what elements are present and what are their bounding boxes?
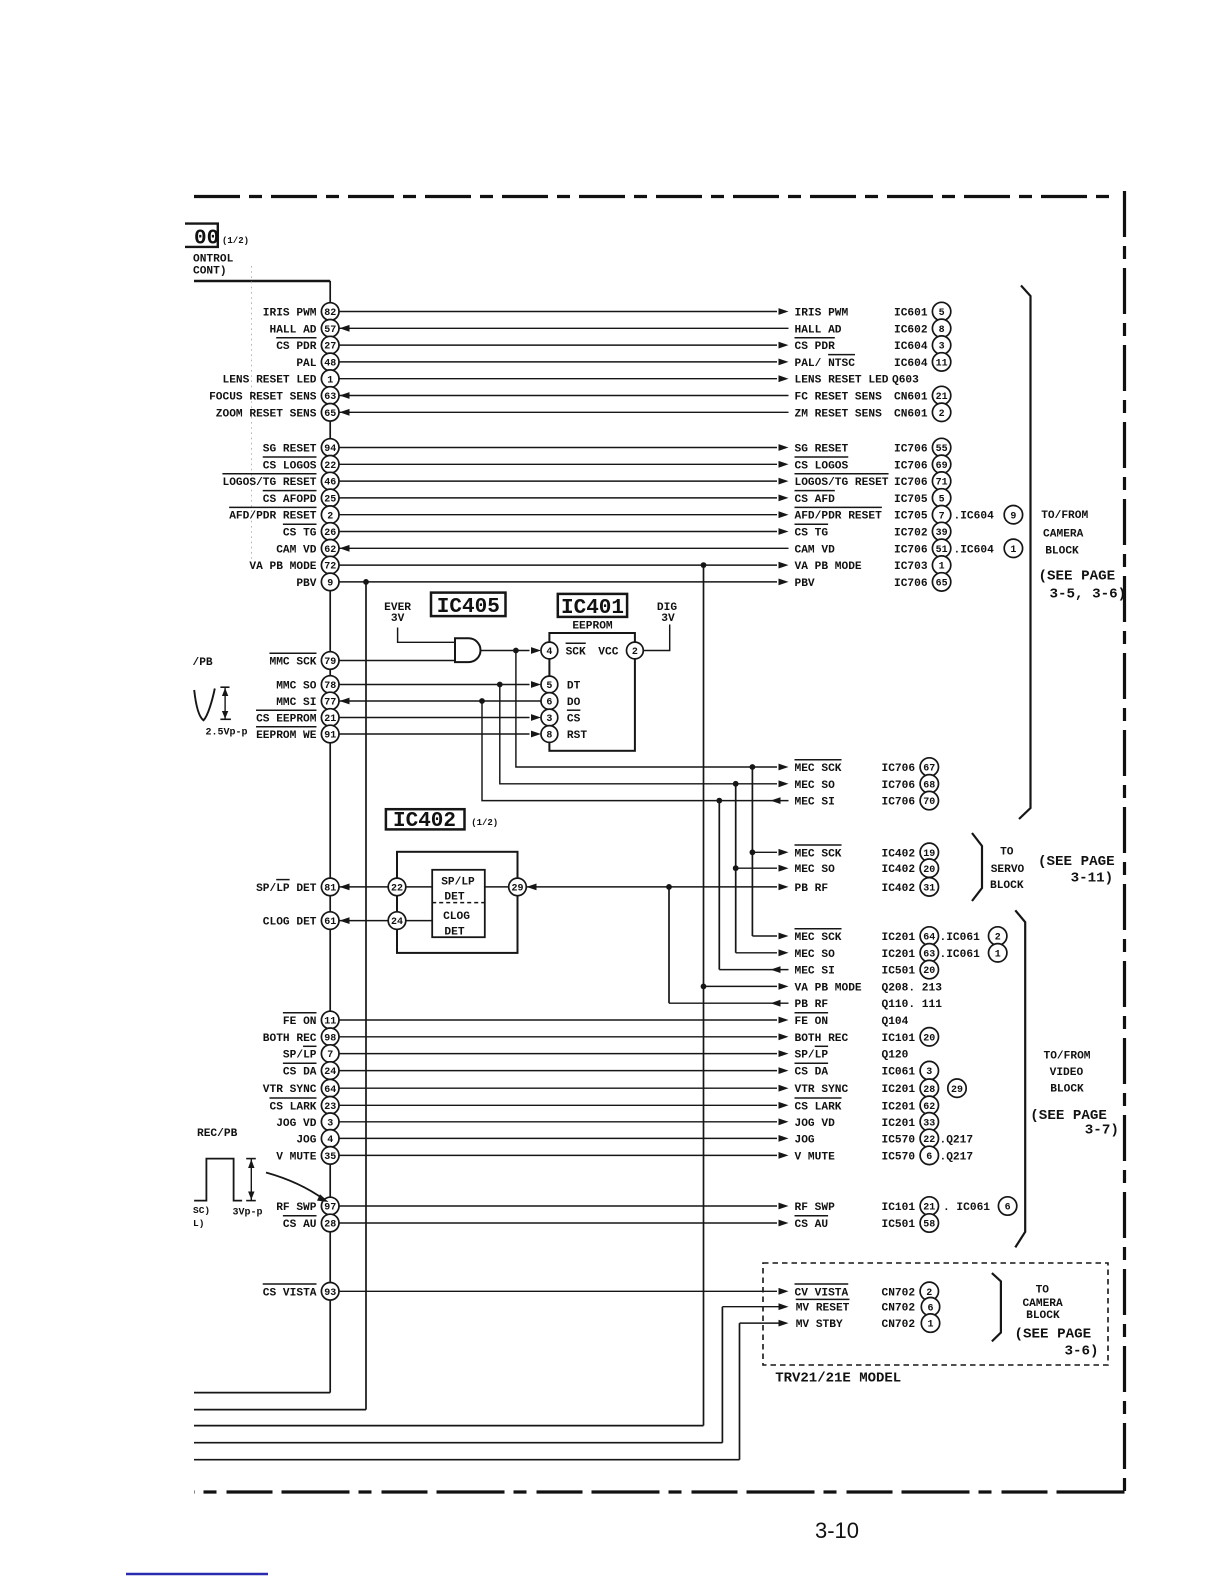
svg-text:SERVO: SERVO bbox=[991, 864, 1025, 876]
svg-text:93: 93 bbox=[324, 1288, 336, 1299]
svg-text:CONT): CONT) bbox=[193, 266, 227, 278]
svg-text:DET: DET bbox=[444, 926, 464, 938]
svg-text:CAM VD: CAM VD bbox=[276, 544, 317, 556]
svg-text:3-10: 3-10 bbox=[815, 1518, 859, 1543]
svg-text:CS LOGOS: CS LOGOS bbox=[795, 460, 849, 472]
svg-text:CN702: CN702 bbox=[882, 1303, 916, 1315]
svg-text:3-7): 3-7) bbox=[1085, 1123, 1119, 1139]
svg-text:MEC SO: MEC SO bbox=[795, 949, 836, 961]
svg-text:MEC SI: MEC SI bbox=[795, 966, 835, 978]
svg-text:JOG VD: JOG VD bbox=[276, 1118, 317, 1130]
svg-text:IC705: IC705 bbox=[894, 494, 928, 506]
svg-text:JOG VD: JOG VD bbox=[795, 1118, 836, 1130]
svg-text:1: 1 bbox=[927, 1320, 933, 1331]
svg-text:CLOG: CLOG bbox=[443, 911, 470, 923]
svg-text:DET: DET bbox=[444, 892, 464, 904]
svg-text:CS DA: CS DA bbox=[795, 1067, 829, 1079]
svg-text:ZOOM RESET SENS: ZOOM RESET SENS bbox=[216, 408, 317, 420]
svg-text:CAMERA: CAMERA bbox=[1043, 528, 1084, 540]
svg-text:2: 2 bbox=[327, 511, 333, 522]
svg-text:DT: DT bbox=[567, 681, 581, 693]
svg-text:69: 69 bbox=[936, 461, 948, 472]
svg-text:HALL AD: HALL AD bbox=[795, 324, 842, 336]
svg-text:68: 68 bbox=[923, 780, 935, 791]
svg-text:ZM RESET SENS: ZM RESET SENS bbox=[795, 408, 883, 420]
svg-text:3: 3 bbox=[939, 342, 945, 353]
svg-text:29: 29 bbox=[951, 1085, 963, 1096]
svg-text:IC601: IC601 bbox=[894, 308, 928, 320]
svg-text:35: 35 bbox=[324, 1152, 336, 1163]
svg-text:PBV: PBV bbox=[296, 578, 316, 590]
svg-text:65: 65 bbox=[936, 579, 948, 590]
svg-text:IC402: IC402 bbox=[882, 864, 916, 876]
svg-text:22: 22 bbox=[324, 461, 336, 472]
svg-text:SP/LP: SP/LP bbox=[283, 1050, 317, 1062]
svg-text:61: 61 bbox=[324, 917, 336, 928]
svg-text:MMC SO: MMC SO bbox=[276, 681, 317, 693]
svg-text:MEC SI: MEC SI bbox=[795, 797, 835, 809]
svg-text:/PB: /PB bbox=[193, 657, 213, 669]
svg-text:58: 58 bbox=[923, 1220, 935, 1231]
svg-text:CS VISTA: CS VISTA bbox=[263, 1287, 317, 1299]
svg-text:81: 81 bbox=[324, 884, 336, 895]
svg-text:3: 3 bbox=[926, 1067, 932, 1078]
svg-text:L): L) bbox=[193, 1218, 204, 1229]
svg-text:Q110. 111: Q110. 111 bbox=[882, 999, 943, 1011]
svg-text:98: 98 bbox=[324, 1033, 336, 1044]
svg-text:51: 51 bbox=[936, 545, 948, 556]
svg-text:CS EEPROM: CS EEPROM bbox=[256, 714, 317, 726]
svg-text:MMC SI: MMC SI bbox=[276, 697, 316, 709]
svg-text:TRV21/21E MODEL: TRV21/21E MODEL bbox=[775, 1371, 901, 1387]
svg-text:MV RESET: MV RESET bbox=[796, 1303, 850, 1315]
svg-text:.IC061: .IC061 bbox=[940, 932, 981, 944]
svg-text:FE ON: FE ON bbox=[795, 1016, 829, 1028]
svg-text:IC201: IC201 bbox=[882, 1101, 916, 1113]
svg-text:2: 2 bbox=[939, 409, 945, 420]
svg-text:IC604: IC604 bbox=[894, 358, 928, 370]
svg-text:Q603: Q603 bbox=[892, 375, 919, 387]
svg-text:1: 1 bbox=[327, 375, 333, 386]
svg-text:SCK: SCK bbox=[566, 647, 586, 659]
svg-text:CS PDR: CS PDR bbox=[276, 341, 317, 353]
svg-text:CS AU: CS AU bbox=[283, 1219, 317, 1231]
svg-text:4: 4 bbox=[327, 1135, 333, 1146]
svg-text:EEPROM WE: EEPROM WE bbox=[256, 730, 317, 742]
svg-text:CS AFD: CS AFD bbox=[795, 494, 836, 506]
svg-text:IC401: IC401 bbox=[561, 597, 624, 620]
svg-text:67: 67 bbox=[923, 764, 935, 775]
svg-text:33: 33 bbox=[923, 1118, 935, 1129]
svg-text:MEC SO: MEC SO bbox=[795, 864, 836, 876]
svg-text:1: 1 bbox=[1010, 545, 1016, 556]
svg-text:48: 48 bbox=[324, 359, 336, 370]
svg-text:CAM VD: CAM VD bbox=[795, 544, 836, 556]
svg-text:MMC SCK: MMC SCK bbox=[270, 657, 317, 669]
svg-text:JOG: JOG bbox=[296, 1134, 316, 1146]
svg-text:IC501: IC501 bbox=[882, 1219, 916, 1231]
svg-text:IC501: IC501 bbox=[882, 966, 916, 978]
svg-text:CV VISTA: CV VISTA bbox=[795, 1287, 849, 1299]
svg-text:IC706: IC706 bbox=[894, 460, 928, 472]
svg-text:REC/PB: REC/PB bbox=[197, 1128, 238, 1140]
svg-text:3-6): 3-6) bbox=[1065, 1344, 1099, 1360]
svg-text:SC): SC) bbox=[193, 1205, 210, 1216]
svg-text:BLOCK: BLOCK bbox=[1050, 1083, 1084, 1095]
svg-text:29: 29 bbox=[511, 884, 523, 895]
svg-text:CN601: CN601 bbox=[894, 392, 928, 404]
svg-text:Q120: Q120 bbox=[882, 1050, 909, 1062]
svg-text:SP/LP DET: SP/LP DET bbox=[256, 883, 317, 895]
svg-text:MEC SCK: MEC SCK bbox=[795, 932, 842, 944]
svg-text:21: 21 bbox=[324, 714, 336, 725]
svg-text:CS AFOPD: CS AFOPD bbox=[263, 494, 317, 506]
svg-text:24: 24 bbox=[391, 917, 403, 928]
svg-text:VIDEO: VIDEO bbox=[1050, 1067, 1084, 1079]
svg-text:JOG: JOG bbox=[795, 1134, 815, 1146]
svg-text:23: 23 bbox=[324, 1102, 336, 1113]
svg-text:IC706: IC706 bbox=[882, 797, 916, 809]
svg-text:DIG: DIG bbox=[657, 602, 677, 614]
svg-text:7: 7 bbox=[939, 511, 945, 522]
svg-text:IC706: IC706 bbox=[882, 763, 916, 775]
svg-text:(SEE PAGE: (SEE PAGE bbox=[1030, 1108, 1107, 1124]
svg-text:ONTROL: ONTROL bbox=[193, 254, 234, 266]
svg-text:LOGOS/TG RESET: LOGOS/TG RESET bbox=[795, 477, 889, 489]
svg-text:55: 55 bbox=[936, 444, 948, 455]
svg-text:3: 3 bbox=[546, 714, 552, 725]
svg-text:V MUTE: V MUTE bbox=[795, 1151, 836, 1163]
svg-text:3V: 3V bbox=[391, 613, 405, 625]
svg-text:2: 2 bbox=[995, 933, 1001, 944]
svg-text:4: 4 bbox=[546, 647, 552, 658]
svg-text:PAL: PAL bbox=[296, 358, 316, 370]
svg-text:SP/LP: SP/LP bbox=[795, 1050, 829, 1062]
svg-text:VA PB MODE: VA PB MODE bbox=[249, 561, 316, 573]
svg-text:IC570: IC570 bbox=[882, 1151, 916, 1163]
svg-text:BLOCK: BLOCK bbox=[990, 880, 1024, 892]
svg-text:IC706: IC706 bbox=[882, 780, 916, 792]
svg-text:IC604: IC604 bbox=[894, 341, 928, 353]
svg-text:CN702: CN702 bbox=[882, 1287, 916, 1299]
svg-text:3Vp-p: 3Vp-p bbox=[233, 1208, 263, 1219]
svg-text:IC201: IC201 bbox=[882, 932, 916, 944]
svg-text:1: 1 bbox=[939, 562, 945, 573]
svg-text:20: 20 bbox=[923, 865, 935, 876]
svg-text:IC706: IC706 bbox=[894, 477, 928, 489]
svg-text:VA PB MODE: VA PB MODE bbox=[795, 982, 862, 994]
svg-text:(SEE PAGE: (SEE PAGE bbox=[1038, 854, 1115, 870]
svg-text:IRIS PWM: IRIS PWM bbox=[795, 308, 849, 320]
svg-text:78: 78 bbox=[324, 681, 336, 692]
svg-text:MEC SCK: MEC SCK bbox=[795, 763, 842, 775]
svg-text:LENS RESET LED: LENS RESET LED bbox=[795, 375, 889, 387]
svg-text:8: 8 bbox=[546, 731, 552, 742]
svg-text:27: 27 bbox=[324, 342, 336, 353]
svg-text:TO: TO bbox=[1036, 1285, 1050, 1297]
svg-text:MV STBY: MV STBY bbox=[796, 1319, 843, 1331]
svg-text:TO/FROM: TO/FROM bbox=[1044, 1050, 1091, 1062]
svg-text:8: 8 bbox=[939, 325, 945, 336]
svg-text:CS PDR: CS PDR bbox=[795, 341, 836, 353]
svg-text:.IC604: .IC604 bbox=[954, 544, 995, 556]
svg-text:RF SWP: RF SWP bbox=[276, 1202, 317, 1214]
svg-text:CS AU: CS AU bbox=[795, 1219, 829, 1231]
svg-text:.Q217: .Q217 bbox=[940, 1151, 974, 1163]
svg-text:IC602: IC602 bbox=[894, 324, 928, 336]
svg-text:IC201: IC201 bbox=[882, 949, 916, 961]
svg-text:77: 77 bbox=[324, 698, 336, 709]
svg-text:21: 21 bbox=[923, 1203, 935, 1214]
svg-text:20: 20 bbox=[923, 966, 935, 977]
svg-text:3V: 3V bbox=[661, 613, 675, 625]
svg-text:3-5, 3-6): 3-5, 3-6) bbox=[1050, 587, 1127, 603]
svg-text:91: 91 bbox=[324, 731, 336, 742]
svg-text:3-11): 3-11) bbox=[1071, 871, 1114, 887]
svg-text:28: 28 bbox=[923, 1085, 935, 1096]
svg-text:IRIS PWM: IRIS PWM bbox=[263, 308, 317, 320]
svg-text:VA PB MODE: VA PB MODE bbox=[795, 561, 862, 573]
svg-text:20: 20 bbox=[923, 1033, 935, 1044]
svg-text:IC101: IC101 bbox=[882, 1202, 916, 1214]
svg-text:CS DA: CS DA bbox=[283, 1067, 317, 1079]
svg-text:Q104: Q104 bbox=[882, 1016, 909, 1028]
svg-text:IC706: IC706 bbox=[894, 578, 928, 590]
svg-text:(1/2): (1/2) bbox=[222, 236, 249, 246]
svg-text:IC201: IC201 bbox=[882, 1118, 916, 1130]
svg-text:5: 5 bbox=[546, 681, 552, 692]
svg-text:00: 00 bbox=[194, 228, 219, 251]
svg-text:RST: RST bbox=[567, 730, 587, 742]
svg-text:22: 22 bbox=[923, 1135, 935, 1146]
svg-text:HALL AD: HALL AD bbox=[270, 324, 317, 336]
svg-text:6: 6 bbox=[1005, 1203, 1011, 1214]
svg-text:57: 57 bbox=[324, 325, 336, 336]
svg-text:RF SWP: RF SWP bbox=[795, 1202, 836, 1214]
svg-text:VTR SYNC: VTR SYNC bbox=[795, 1084, 849, 1096]
svg-text:CS LARK: CS LARK bbox=[270, 1101, 317, 1113]
svg-text:9: 9 bbox=[1010, 511, 1016, 522]
svg-text:3: 3 bbox=[327, 1118, 333, 1129]
svg-text:22: 22 bbox=[391, 884, 403, 895]
svg-text:79: 79 bbox=[324, 657, 336, 668]
svg-text:25: 25 bbox=[324, 495, 336, 506]
svg-text:5: 5 bbox=[939, 495, 945, 506]
svg-text:46: 46 bbox=[324, 478, 336, 489]
svg-text:CN601: CN601 bbox=[894, 408, 928, 420]
svg-text:6: 6 bbox=[546, 698, 552, 709]
svg-text:CLOG DET: CLOG DET bbox=[263, 917, 317, 929]
svg-text:IC703: IC703 bbox=[894, 561, 928, 573]
svg-text:IC402: IC402 bbox=[882, 883, 916, 895]
svg-text:IC705: IC705 bbox=[894, 511, 928, 523]
svg-text:CS LARK: CS LARK bbox=[795, 1101, 842, 1113]
svg-text:28: 28 bbox=[324, 1220, 336, 1231]
svg-text:IC706: IC706 bbox=[894, 444, 928, 456]
svg-text:11: 11 bbox=[936, 359, 948, 370]
svg-text:AFD/PDR RESET: AFD/PDR RESET bbox=[795, 511, 883, 523]
svg-text:64: 64 bbox=[923, 933, 935, 944]
svg-text:BLOCK: BLOCK bbox=[1045, 545, 1079, 557]
svg-text:21: 21 bbox=[936, 392, 948, 403]
svg-text:TO: TO bbox=[1000, 847, 1014, 859]
svg-text:MEC SCK: MEC SCK bbox=[795, 848, 842, 860]
svg-text:SG RESET: SG RESET bbox=[263, 444, 317, 456]
svg-text:LENS RESET LED: LENS RESET LED bbox=[223, 375, 317, 387]
svg-text:MEC SO: MEC SO bbox=[795, 780, 836, 792]
svg-text:BOTH REC: BOTH REC bbox=[795, 1033, 849, 1045]
svg-text:Q208. 213: Q208. 213 bbox=[882, 982, 943, 994]
svg-text:CAMERA: CAMERA bbox=[1022, 1298, 1063, 1310]
svg-text:SP/LP: SP/LP bbox=[441, 877, 475, 889]
svg-text:94: 94 bbox=[324, 444, 336, 455]
svg-text:1: 1 bbox=[995, 949, 1001, 960]
svg-text:IC570: IC570 bbox=[882, 1134, 916, 1146]
svg-text:.IC604: .IC604 bbox=[954, 511, 995, 523]
svg-text:39: 39 bbox=[936, 528, 948, 539]
svg-text:PB RF: PB RF bbox=[795, 999, 829, 1011]
svg-text:SG RESET: SG RESET bbox=[795, 444, 849, 456]
svg-text:FE ON: FE ON bbox=[283, 1016, 317, 1028]
svg-text:CS TG: CS TG bbox=[795, 528, 829, 540]
svg-text:72: 72 bbox=[324, 562, 336, 573]
svg-text:IC706: IC706 bbox=[894, 544, 928, 556]
svg-text:PB RF: PB RF bbox=[795, 883, 829, 895]
svg-text:(SEE PAGE: (SEE PAGE bbox=[1015, 1327, 1092, 1343]
svg-text:70: 70 bbox=[923, 797, 935, 808]
svg-text:62: 62 bbox=[324, 545, 336, 556]
svg-text:EVER: EVER bbox=[384, 602, 411, 614]
svg-text:.Q217: .Q217 bbox=[940, 1134, 974, 1146]
svg-text:62: 62 bbox=[923, 1102, 935, 1113]
svg-text:CN702: CN702 bbox=[882, 1319, 916, 1331]
svg-text:(1/2): (1/2) bbox=[471, 818, 498, 828]
svg-text:71: 71 bbox=[936, 478, 948, 489]
svg-text:VTR SYNC: VTR SYNC bbox=[263, 1084, 317, 1096]
svg-text:PBV: PBV bbox=[795, 578, 815, 590]
svg-text:TO/FROM: TO/FROM bbox=[1041, 510, 1088, 522]
svg-text:31: 31 bbox=[923, 884, 935, 895]
svg-text:PAL/ NTSC: PAL/ NTSC bbox=[795, 358, 856, 370]
svg-text:IC702: IC702 bbox=[894, 528, 928, 540]
svg-text:63: 63 bbox=[923, 949, 935, 960]
svg-text:63: 63 bbox=[324, 392, 336, 403]
svg-text:CS: CS bbox=[567, 714, 581, 726]
svg-text:6: 6 bbox=[927, 1303, 933, 1314]
svg-text:9: 9 bbox=[327, 579, 333, 590]
svg-text:V MUTE: V MUTE bbox=[276, 1151, 317, 1163]
svg-text:6: 6 bbox=[926, 1152, 932, 1163]
svg-text:DO: DO bbox=[567, 697, 581, 709]
svg-text:IC405: IC405 bbox=[437, 596, 500, 619]
svg-text:2: 2 bbox=[632, 647, 638, 658]
svg-text:BLOCK: BLOCK bbox=[1026, 1310, 1060, 1322]
svg-text:FC RESET SENS: FC RESET SENS bbox=[795, 392, 883, 404]
svg-text:5: 5 bbox=[939, 308, 945, 319]
svg-text:IC201: IC201 bbox=[882, 1084, 916, 1096]
svg-text:CS TG: CS TG bbox=[283, 528, 317, 540]
svg-text:82: 82 bbox=[324, 308, 336, 319]
svg-text:AFD/PDR RESET: AFD/PDR RESET bbox=[229, 511, 317, 523]
svg-text:. IC061: . IC061 bbox=[943, 1202, 990, 1214]
svg-text:LOGOS/TG RESET: LOGOS/TG RESET bbox=[223, 477, 317, 489]
svg-text:CS LOGOS: CS LOGOS bbox=[263, 460, 317, 472]
svg-text:BOTH REC: BOTH REC bbox=[263, 1033, 317, 1045]
svg-text:2.5Vp-p: 2.5Vp-p bbox=[206, 728, 248, 739]
svg-text:VCC: VCC bbox=[598, 647, 618, 659]
svg-text:IC101: IC101 bbox=[882, 1033, 916, 1045]
svg-text:EEPROM: EEPROM bbox=[572, 621, 613, 633]
svg-text:(SEE PAGE: (SEE PAGE bbox=[1039, 569, 1116, 585]
svg-text:IC402: IC402 bbox=[393, 810, 456, 833]
svg-text:.IC061: .IC061 bbox=[940, 949, 981, 961]
svg-text:11: 11 bbox=[324, 1017, 336, 1028]
svg-text:64: 64 bbox=[324, 1085, 336, 1096]
svg-text:65: 65 bbox=[324, 409, 336, 420]
svg-text:24: 24 bbox=[324, 1067, 336, 1078]
svg-text:FOCUS RESET SENS: FOCUS RESET SENS bbox=[209, 392, 317, 404]
svg-text:26: 26 bbox=[324, 528, 336, 539]
svg-text:IC061: IC061 bbox=[882, 1067, 916, 1079]
svg-text:IC402: IC402 bbox=[882, 848, 916, 860]
svg-text:7: 7 bbox=[327, 1050, 333, 1061]
svg-text:97: 97 bbox=[324, 1203, 336, 1214]
